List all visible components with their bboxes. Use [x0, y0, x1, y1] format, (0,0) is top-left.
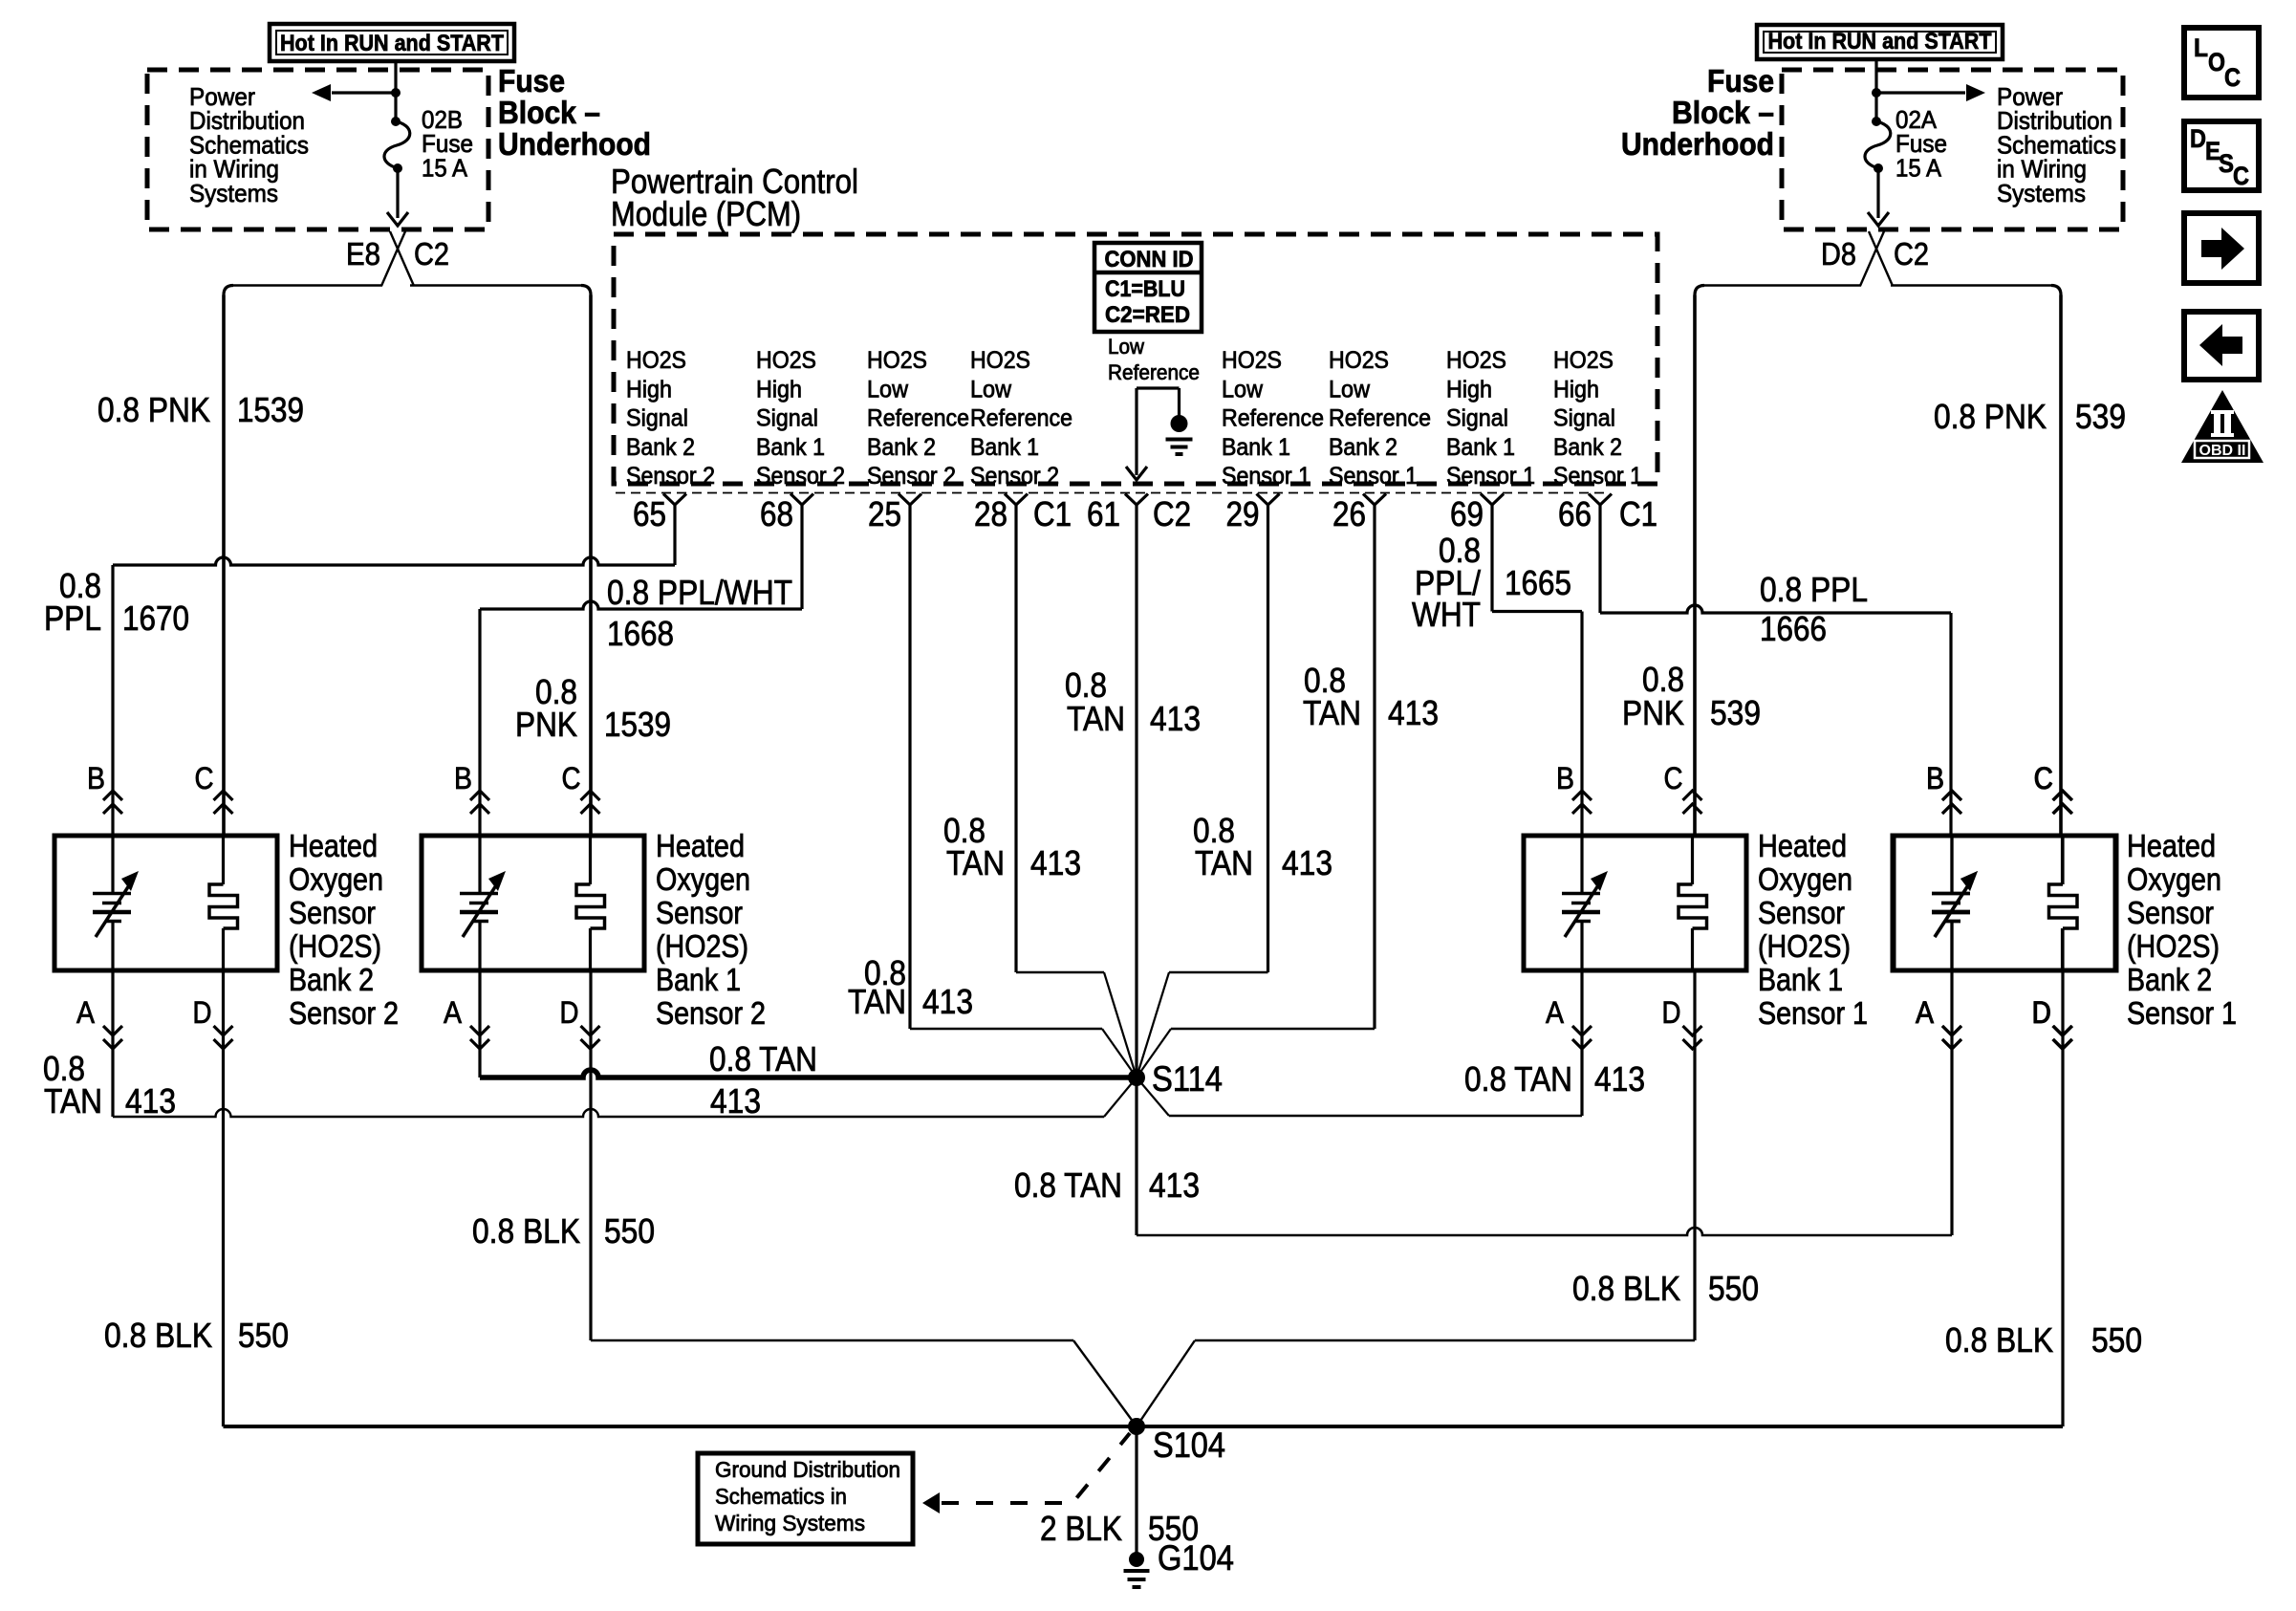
- svg-text:61: 61: [1087, 494, 1120, 533]
- svg-text:L: L: [2194, 33, 2208, 62]
- svg-text:High: High: [626, 376, 672, 403]
- svg-text:C: C: [1664, 761, 1683, 795]
- svg-text:15 A: 15 A: [422, 153, 468, 182]
- svg-text:(HO2S): (HO2S): [1758, 928, 1851, 964]
- svg-text:Signal: Signal: [626, 405, 688, 432]
- svg-text:0.8 BLK: 0.8 BLK: [1572, 1269, 1680, 1308]
- svg-text:Bank 1: Bank 1: [1758, 962, 1843, 997]
- svg-text:Sensor 1: Sensor 1: [2127, 995, 2237, 1031]
- svg-text:413: 413: [1149, 1165, 1200, 1205]
- svg-text:Sensor 2: Sensor 2: [626, 463, 715, 490]
- svg-text:Sensor: Sensor: [656, 895, 743, 930]
- svg-text:Sensor 1: Sensor 1: [1446, 463, 1535, 490]
- svg-text:69: 69: [1450, 494, 1484, 533]
- svg-text:C: C: [195, 761, 214, 795]
- svg-text:Oxygen: Oxygen: [2127, 861, 2221, 897]
- svg-text:Sensor: Sensor: [1758, 895, 1845, 930]
- svg-text:1670: 1670: [122, 599, 189, 638]
- svg-text:Reference: Reference: [1329, 405, 1431, 432]
- svg-text:C1: C1: [1619, 494, 1657, 533]
- svg-text:B: B: [87, 761, 105, 795]
- svg-text:1665: 1665: [1505, 563, 1571, 602]
- svg-text:Low: Low: [970, 376, 1012, 403]
- svg-text:0.8 BLK: 0.8 BLK: [104, 1316, 212, 1355]
- svg-text:Fuse: Fuse: [498, 63, 565, 98]
- svg-text:HO2S: HO2S: [1222, 347, 1282, 374]
- svg-text:0.8 TAN: 0.8 TAN: [1464, 1059, 1572, 1099]
- svg-text:0.8 PPL/WHT: 0.8 PPL/WHT: [607, 573, 792, 612]
- svg-text:Block –: Block –: [498, 95, 600, 130]
- svg-text:Oxygen: Oxygen: [289, 861, 383, 897]
- svg-text:Systems: Systems: [1997, 179, 2086, 207]
- svg-text:S104: S104: [1153, 1426, 1225, 1465]
- svg-text:Ground Distribution: Ground Distribution: [715, 1457, 900, 1482]
- svg-text:550: 550: [238, 1316, 289, 1355]
- svg-text:A: A: [76, 995, 96, 1030]
- svg-text:Low: Low: [1108, 335, 1144, 359]
- svg-text:1539: 1539: [604, 705, 671, 744]
- svg-text:28: 28: [974, 494, 1007, 533]
- svg-text:550: 550: [604, 1211, 655, 1251]
- svg-text:CONN ID: CONN ID: [1105, 247, 1194, 272]
- svg-text:Sensor: Sensor: [289, 895, 376, 930]
- svg-text:Low: Low: [867, 376, 909, 403]
- svg-text:D8: D8: [1821, 236, 1856, 272]
- svg-text:D: D: [2190, 124, 2206, 153]
- svg-text:0.8 PNK: 0.8 PNK: [1934, 397, 2047, 436]
- svg-text:Sensor 1: Sensor 1: [1758, 995, 1868, 1031]
- svg-text:550: 550: [1708, 1269, 1759, 1308]
- svg-text:Hot In RUN and START: Hot In RUN and START: [280, 31, 504, 56]
- svg-text:HO2S: HO2S: [626, 347, 686, 374]
- svg-text:0.8 BLK: 0.8 BLK: [1945, 1320, 2053, 1360]
- svg-text:Reference: Reference: [970, 405, 1072, 432]
- svg-text:PPL: PPL: [44, 599, 101, 638]
- svg-text:Bank 2: Bank 2: [867, 434, 936, 461]
- svg-text:Sensor 2: Sensor 2: [756, 463, 845, 490]
- svg-text:HO2S: HO2S: [1329, 347, 1389, 374]
- svg-text:TAN: TAN: [1195, 843, 1253, 882]
- svg-text:Bank 1: Bank 1: [656, 962, 741, 997]
- svg-text:Systems: Systems: [189, 179, 278, 207]
- svg-text:High: High: [756, 376, 802, 403]
- svg-text:High: High: [1446, 376, 1492, 403]
- svg-text:413: 413: [1594, 1059, 1645, 1099]
- svg-text:413: 413: [125, 1081, 176, 1121]
- svg-text:Module (PCM): Module (PCM): [611, 194, 801, 233]
- svg-text:0.8 TAN: 0.8 TAN: [1014, 1165, 1122, 1205]
- svg-text:0.8 TAN: 0.8 TAN: [709, 1039, 817, 1078]
- svg-text:A: A: [1916, 995, 1935, 1030]
- svg-text:15 A: 15 A: [1895, 153, 1942, 182]
- svg-text:66: 66: [1558, 494, 1592, 533]
- svg-text:A: A: [444, 995, 463, 1030]
- svg-text:1539: 1539: [237, 390, 304, 429]
- svg-text:Sensor 2: Sensor 2: [970, 463, 1059, 490]
- svg-text:Low: Low: [1222, 376, 1264, 403]
- svg-text:HO2S: HO2S: [970, 347, 1030, 374]
- svg-text:Reference: Reference: [1222, 405, 1324, 432]
- svg-text:TAN: TAN: [946, 843, 1005, 882]
- svg-text:0.8 BLK: 0.8 BLK: [472, 1211, 580, 1251]
- svg-text:Signal: Signal: [1553, 405, 1615, 432]
- svg-text:413: 413: [1150, 699, 1201, 738]
- svg-text:Bank 1: Bank 1: [1446, 434, 1515, 461]
- svg-text:Underhood: Underhood: [498, 126, 651, 162]
- svg-text:HO2S: HO2S: [1446, 347, 1506, 374]
- svg-text:2 BLK: 2 BLK: [1040, 1509, 1122, 1548]
- svg-text:Heated: Heated: [1758, 828, 1847, 863]
- svg-text:Bank 2: Bank 2: [2127, 962, 2212, 997]
- svg-text:Bank 2: Bank 2: [626, 434, 695, 461]
- svg-text:C: C: [562, 761, 581, 795]
- svg-text:C2: C2: [1894, 236, 1929, 272]
- svg-text:65: 65: [633, 494, 666, 533]
- svg-text:Sensor: Sensor: [2127, 895, 2214, 930]
- svg-text:Bank 1: Bank 1: [970, 434, 1039, 461]
- svg-text:C2: C2: [1153, 494, 1191, 533]
- svg-text:Bank 2: Bank 2: [1553, 434, 1622, 461]
- svg-text:O: O: [2208, 48, 2225, 76]
- svg-text:B: B: [1926, 761, 1944, 795]
- svg-text:Oxygen: Oxygen: [656, 861, 750, 897]
- svg-text:S: S: [2219, 149, 2234, 178]
- svg-text:HO2S: HO2S: [867, 347, 927, 374]
- svg-text:HO2S: HO2S: [756, 347, 816, 374]
- svg-text:HO2S: HO2S: [1553, 347, 1614, 374]
- svg-text:25: 25: [868, 494, 901, 533]
- svg-text:C2=RED: C2=RED: [1105, 302, 1190, 328]
- svg-text:G104: G104: [1158, 1538, 1234, 1578]
- svg-text:TAN: TAN: [848, 982, 906, 1021]
- svg-text:Sensor 1: Sensor 1: [1553, 463, 1642, 490]
- svg-text:Block –: Block –: [1672, 95, 1774, 130]
- svg-text:B: B: [454, 761, 472, 795]
- svg-text:Low: Low: [1329, 376, 1371, 403]
- svg-text:Heated: Heated: [289, 828, 378, 863]
- svg-text:413: 413: [1388, 693, 1439, 732]
- svg-text:539: 539: [2075, 397, 2126, 436]
- svg-text:Reference: Reference: [1108, 360, 1200, 384]
- svg-text:0.8 PNK: 0.8 PNK: [97, 390, 210, 429]
- svg-text:68: 68: [760, 494, 793, 533]
- svg-text:413: 413: [1030, 843, 1081, 882]
- svg-text:Schematics in: Schematics in: [715, 1484, 847, 1509]
- svg-text:TAN: TAN: [44, 1081, 102, 1121]
- svg-text:B: B: [1556, 761, 1574, 795]
- svg-text:Oxygen: Oxygen: [1758, 861, 1852, 897]
- svg-text:Sensor 2: Sensor 2: [656, 995, 766, 1031]
- svg-text:D: D: [2032, 995, 2051, 1030]
- svg-text:539: 539: [1710, 693, 1761, 732]
- svg-text:D: D: [193, 995, 212, 1030]
- svg-text:TAN: TAN: [1067, 699, 1125, 738]
- svg-text:C1: C1: [1033, 494, 1072, 533]
- svg-text:D: D: [1662, 995, 1681, 1030]
- svg-text:(HO2S): (HO2S): [2127, 928, 2220, 964]
- svg-text:C: C: [2034, 761, 2053, 795]
- svg-text:Bank 2: Bank 2: [1329, 434, 1397, 461]
- svg-text:Sensor 2: Sensor 2: [867, 463, 956, 490]
- svg-text:S114: S114: [1152, 1059, 1223, 1099]
- svg-text:C: C: [2233, 162, 2249, 190]
- svg-text:E8: E8: [346, 236, 380, 272]
- svg-text:29: 29: [1226, 494, 1260, 533]
- svg-text:C2: C2: [414, 236, 449, 272]
- svg-text:Bank 1: Bank 1: [1222, 434, 1290, 461]
- svg-text:Sensor 2: Sensor 2: [289, 995, 399, 1031]
- svg-text:Signal: Signal: [1446, 405, 1508, 432]
- svg-text:High: High: [1553, 376, 1599, 403]
- svg-text:TAN: TAN: [1303, 693, 1361, 732]
- svg-text:Sensor 1: Sensor 1: [1329, 463, 1418, 490]
- svg-text:(HO2S): (HO2S): [289, 928, 381, 964]
- svg-text:Reference: Reference: [867, 405, 969, 432]
- svg-text:D: D: [560, 995, 579, 1030]
- svg-text:413: 413: [1282, 843, 1332, 882]
- svg-text:Heated: Heated: [656, 828, 745, 863]
- svg-text:1666: 1666: [1760, 609, 1827, 648]
- svg-text:PNK: PNK: [515, 705, 577, 744]
- svg-text:Hot In RUN and START: Hot In RUN and START: [1768, 29, 1992, 54]
- svg-text:413: 413: [710, 1081, 761, 1121]
- svg-text:Signal: Signal: [756, 405, 818, 432]
- svg-text:C: C: [2224, 63, 2241, 92]
- svg-text:PNK: PNK: [1622, 693, 1684, 732]
- svg-text:1668: 1668: [607, 614, 674, 653]
- svg-text:OBD II: OBD II: [2199, 443, 2246, 459]
- svg-text:Fuse: Fuse: [1707, 63, 1774, 98]
- svg-text:A: A: [1546, 995, 1565, 1030]
- svg-text:C1=BLU: C1=BLU: [1105, 276, 1185, 302]
- svg-text:Wiring Systems: Wiring Systems: [715, 1511, 865, 1535]
- svg-text:Sensor 1: Sensor 1: [1222, 463, 1310, 490]
- svg-text:550: 550: [2091, 1320, 2142, 1360]
- svg-text:Bank 2: Bank 2: [289, 962, 374, 997]
- svg-text:(HO2S): (HO2S): [656, 928, 748, 964]
- svg-text:0.8 PPL: 0.8 PPL: [1760, 570, 1868, 609]
- svg-text:Heated: Heated: [2127, 828, 2216, 863]
- svg-text:413: 413: [922, 982, 973, 1021]
- svg-text:WHT: WHT: [1412, 595, 1481, 634]
- svg-text:Bank 1: Bank 1: [756, 434, 825, 461]
- svg-text:Underhood: Underhood: [1621, 126, 1774, 162]
- svg-text:26: 26: [1332, 494, 1366, 533]
